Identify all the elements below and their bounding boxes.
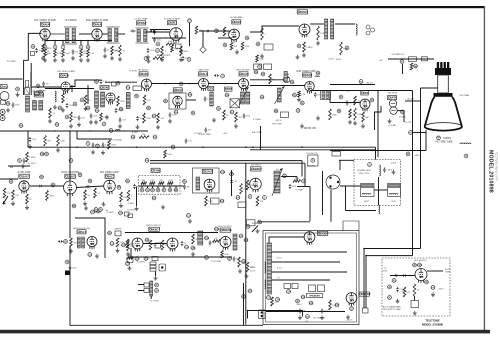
ground R7 [61,58,65,62]
wire long vertical x420 [420,88,422,249]
sound trap transformer T3 [136,28,149,43]
wire left edge y79 [0,78,23,80]
svg-text:4.5 MC TRAP: 4.5 MC TRAP [32,90,46,93]
ref circle 35 [36,84,40,88]
svg-text:6AU6: 6AU6 [242,72,249,76]
ref circle 58 [337,109,341,113]
coil [265,262,266,273]
svg-text:350V: 350V [336,59,341,61]
svg-text:1B3GT: 1B3GT [253,167,262,171]
ground [188,219,192,223]
svg-text:6AU6: 6AU6 [3,86,9,89]
tube 6AU6 [40,29,50,42]
wire vert tubes [143,243,167,245]
svg-text:HOR. SIZE: HOR. SIZE [272,124,282,126]
ref circle 98b [174,188,179,192]
svg-text:138b: 138b [417,265,423,267]
ground [69,124,73,128]
ref circle [125,262,131,266]
svg-text:B. DET: B. DET [132,132,139,134]
svg-text:122a: 122a [134,258,140,260]
junction dot [202,146,204,148]
svg-text:120K: 120K [245,46,250,48]
sync separator dashed box [139,176,180,195]
ref circle 65 [406,152,410,156]
svg-text:PIX SOCKET: PIX SOCKET [332,150,344,152]
capacitor Cx11 [169,112,172,117]
tube type 12AU7 clipper [65,174,76,178]
wire bottom hv [258,221,311,223]
capacitor C137 [321,308,324,313]
ref circle [425,280,430,284]
junction dot [164,83,166,85]
resistor Rx14 [235,112,238,122]
resistor R80a [3,188,6,198]
wire to CRT grid [421,87,438,89]
LV power supply box inner [266,233,357,322]
capacitor Cu2 [147,48,150,53]
svg-text:120K: 120K [60,140,65,142]
svg-text:560K: 560K [183,51,188,53]
ref circle [283,174,287,178]
ref circle 52 [191,111,195,115]
sound label [133,86,142,90]
ac switch wire [248,311,303,319]
speaker coil [356,24,357,35]
tube type horiz osc [361,91,369,95]
wire hv feed [413,132,426,134]
svg-text:WITH VTVM TO CHAS.: WITH VTVM TO CHAS. [383,308,401,311]
resistor R28b [256,55,259,62]
svg-text:6AQ5: 6AQ5 [305,73,313,77]
svg-text:A-100 V.: A-100 V. [407,98,415,101]
ref circle [99,208,104,212]
capacitor C45c [115,108,118,113]
socket wires [339,159,354,161]
resistor R74b [139,136,149,139]
wire drop x72 [71,85,73,92]
ground [160,57,164,61]
svg-text:SYNC: SYNC [154,168,162,172]
resistor R26 [241,42,244,50]
capacitor C48c [136,116,139,121]
ref circle [164,99,169,103]
wire b+ stub [8,165,30,167]
svg-text:470K: 470K [111,144,116,146]
resistor R111c [126,239,129,248]
ground R24 [235,50,239,54]
tube type 12AU7 [19,174,30,178]
junction dot [54,40,56,42]
resistor R34f [298,91,301,97]
wire T2 to right [116,33,125,35]
svg-text:6V6GT: 6V6GT [300,10,309,14]
control box inset [411,301,419,308]
socket label box [332,152,341,157]
wire drop x70 lower [69,247,71,258]
ref circle 93 [140,188,144,192]
svg-text:120K: 120K [246,116,251,118]
ref circle [261,72,266,76]
wire drop x364 [363,249,365,309]
label row 3 [150,268,156,271]
wire pix control left [375,106,382,130]
wire drop x231 [231,170,233,196]
junction dot [409,275,411,277]
svg-text:PIX CNTRL: PIX CNTRL [388,92,398,94]
wire grid step down [24,33,42,95]
resistor R70c [57,135,60,146]
capacitor C99 [183,184,186,189]
wire [297,186,310,188]
svg-text:6.3 V.: 6.3 V. [277,258,282,260]
svg-text:120K: 120K [150,50,155,52]
wire right drop [322,171,324,215]
svg-text:5.6K: 5.6K [357,114,362,116]
resistor R128b [246,262,249,272]
svg-text:TUBE: TUBE [445,272,451,274]
ref circle [45,152,50,156]
ground R13 [118,57,122,61]
resistor R45 [117,96,120,106]
ground [94,120,98,124]
ref circle [121,243,126,247]
svg-text:111b: 111b [121,245,126,247]
tube type label [35,93,45,97]
ref circle [40,152,45,156]
ref circle [135,94,140,98]
svg-text:6SB7: 6SB7 [170,21,177,25]
ion trap box [409,57,417,62]
wire bus y149.8 [250,149,376,151]
wire join x28 [27,131,29,147]
ref circle [258,220,262,224]
ref circle [220,199,225,203]
svg-text:114c: 114c [184,247,190,249]
wire drop x136 [136,187,138,207]
resistor R58c [362,112,365,122]
wire af to output grid [250,26,299,32]
ground [179,57,183,61]
wire socket drop [330,190,332,222]
winding label 2 [144,289,149,293]
picture tube funnel [425,97,462,131]
coil [315,76,319,77]
junction dot [202,30,204,32]
page top border bar [0,6,485,8]
ref circle [388,285,393,289]
svg-text:470K: 470K [292,186,297,188]
svg-text:A HOT SET: A HOT SET [252,131,263,134]
bias box [155,243,161,248]
svg-text:MODEL 2010898: MODEL 2010898 [488,150,494,193]
ref circle 88 [78,173,82,177]
mini box [112,82,117,86]
ref circle [316,71,321,75]
ref circle 10 [86,45,90,49]
wire winding 2 [138,290,144,292]
resistor R81 [26,194,29,204]
peaking coil L2 [55,91,56,102]
wire socket v [339,160,341,170]
ground [168,119,172,123]
ground [146,55,150,59]
ref circle [217,107,222,111]
svg-text:270K: 270K [32,139,37,141]
interlock box with X [230,99,240,108]
junction dot [216,30,218,32]
ref circle [95,80,100,84]
svg-text:5.6K: 5.6K [150,180,155,182]
ref circle 39 [16,87,20,91]
ref circle [171,145,176,149]
resistor R112 [127,240,130,251]
tube 6V6GT audio output [299,24,310,38]
ref circle 31 [345,46,349,50]
resistor R30 [340,42,343,55]
svg-text:60 CY.: 60 CY. [250,271,256,273]
capacitor C103b [133,184,136,189]
ref circle 32 [297,44,301,48]
ref circle [94,208,99,212]
ref circle [230,172,235,176]
ground [346,315,350,319]
ref circle [58,106,63,110]
capacitor C136 [299,308,302,313]
tube 6AL5 ratio det [199,79,209,92]
yoke coil right core [389,185,400,188]
tube type 6AQ5 2nd video amp [303,73,313,77]
ref circle 87 [51,183,55,187]
svg-text:+ 100 MA.: + 100 MA. [388,124,397,127]
ref circle 60 [370,98,374,102]
svg-text:sw: sw [247,226,250,228]
capacitor C116 [209,240,212,245]
width control box [281,112,289,118]
ref circle [188,93,193,97]
tube 6AU6 [92,29,102,42]
junction dot [245,146,247,148]
picture tube neck [438,75,449,93]
ground [53,105,57,109]
ref circle [258,65,262,69]
capacitor C39c [12,102,15,107]
svg-text:113a: 113a [145,240,151,242]
svg-text:1ST VIDEO IF AMP: 1ST VIDEO IF AMP [34,19,56,22]
wire drop x70 long [69,191,71,238]
hor coil box [321,91,331,100]
ground [320,315,324,319]
tube sync section [106,93,115,105]
ref circle [156,42,160,46]
wire return lower [366,255,413,257]
resistor R90 [141,182,147,185]
ref circle [409,131,413,135]
tube type 6AV6 [232,20,242,24]
tube type vert block osc [77,230,87,234]
ref circle [239,234,244,238]
svg-text:TO DEFL: TO DEFL [194,133,202,135]
svg-text:350V: 350V [346,91,351,93]
svg-text:TELETONE RADIO CORP.: TELETONE RADIO CORP. [495,152,498,181]
winding [284,72,287,82]
ground pix [388,119,392,123]
resistor R12 [111,46,114,55]
resistor R134 [329,300,332,310]
wire parallel drop [30,63,32,95]
ref circle [359,80,363,84]
svg-text:100K: 100K [65,53,70,55]
ref circle 71 [86,142,90,146]
tube vert out 2 [167,238,178,252]
stub 98b [175,186,177,188]
svg-text:H.V. RECT: H.V. RECT [251,165,261,167]
svg-text:560K: 560K [259,58,264,60]
vert out label [149,227,161,231]
ground up [102,202,106,206]
svg-text:220K: 220K [130,245,135,247]
wire OPT to speaker plug [335,23,355,25]
wire plate to OPT [310,23,324,25]
ground inset mid [413,311,417,315]
wire trap to sound tube [146,31,170,33]
hor out label [220,228,232,232]
svg-text:330K: 330K [332,114,337,116]
ref circle [145,159,150,163]
resistor R48d [143,113,146,123]
trap label box [137,21,147,25]
coil label box [208,86,214,90]
ref circle 61 [400,60,404,64]
svg-text:PICTURE TUBE: PICTURE TUBE [435,141,453,144]
svg-text:6AV6: 6AV6 [234,20,241,24]
wire b+ row [330,84,375,86]
capacitor C-sync [182,56,185,61]
svg-text:8.2K: 8.2K [320,33,325,35]
svg-text:6W4GT: 6W4GT [361,292,371,296]
svg-text:112a: 112a [186,215,192,217]
winding arrow [275,86,285,104]
tube hor out [220,237,231,251]
ref circle [260,95,265,99]
ground 39 [16,92,20,96]
capacitor C14 [130,30,135,33]
svg-text:5.6K: 5.6K [174,48,179,50]
ref circle [147,106,152,110]
svg-text:AGC KEYING: AGC KEYING [237,69,250,72]
svg-text:TO SYNC: TO SYNC [129,71,138,73]
ref circle 75 [464,154,468,158]
svg-text:5 V.: 5 V. [277,278,281,280]
ref circle AC switch [306,315,311,319]
svg-text:115 V.: 115 V. [250,267,256,269]
picture tube face rim [425,123,462,127]
resistor R-fb [293,180,301,183]
ground [316,116,320,120]
ref circle 26 [245,36,249,40]
svg-text:HEIGHT: HEIGHT [115,229,123,231]
winding [101,92,105,107]
svg-text:1 MEG: 1 MEG [387,170,393,172]
ref circle 97 [162,188,166,192]
bottom long wire [70,258,263,325]
ground [156,125,160,129]
svg-text:12AU7: 12AU7 [21,174,30,178]
junction dot [189,83,191,85]
ground input [6,108,10,112]
svg-text:470K: 470K [120,101,125,103]
svg-text:FIELD: FIELD [296,304,302,306]
ground R6 [53,58,57,62]
capacitor C70a [29,137,32,142]
ref circle [131,135,136,139]
ref circle [90,210,96,214]
ground [179,49,183,53]
capacitor C21 [205,30,210,33]
svg-text:150K: 150K [224,254,229,256]
svg-text:IF TRANS: IF TRANS [65,19,77,22]
resistor R84 [94,188,97,198]
ground [147,59,151,63]
ref circle 98 [168,188,172,192]
resistor R100 [205,196,208,206]
resistor Rx3 [84,95,87,105]
ref circle [86,106,91,110]
arrow to sync [3,196,8,204]
ground R55 [348,120,352,124]
svg-text:TO CRT: TO CRT [405,122,413,124]
capacitor C107 [95,211,100,214]
resistor R3c [42,44,45,52]
ref circle [18,159,23,163]
coil box [422,57,428,61]
svg-text:141a: 141a [391,280,397,282]
resistor R82 [46,191,49,201]
svg-text:6AT6: 6AT6 [390,96,397,100]
winding [274,171,280,193]
ref circle [220,170,226,174]
capacitor C58b [346,100,349,105]
ref circle 89 [88,179,92,183]
wire drop 10 [87,40,89,45]
wire drop x77 [76,131,78,139]
resistor R144 [413,284,416,296]
resistor R48 [143,95,146,105]
svg-text:SYNC CLIPPER: SYNC CLIPPER [61,171,80,174]
wire drop [155,272,157,277]
connector square [65,271,70,276]
svg-text:137e: 137e [247,291,253,293]
svg-text:FOCUS COIL: FOCUS COIL [306,153,318,155]
junction dot [54,130,56,132]
svg-text:HOR AND VERT: HOR AND VERT [357,169,371,172]
ratio det arrow [239,87,249,105]
ref circle 6 [53,45,57,49]
ref circle [388,296,393,300]
junction dot [89,130,91,132]
tube video det [61,82,70,94]
pix control dual circles [389,100,396,107]
wire row2 top [45,88,94,90]
capacitor C44b [78,115,81,120]
capacitor C-yoke [383,167,386,172]
svg-text:+265 V.: +265 V. [438,289,445,291]
winding [198,231,203,245]
ground R9 [79,58,83,62]
ref circle [263,196,267,200]
svg-text:2.2K: 2.2K [90,53,95,55]
ref circle [64,240,69,244]
